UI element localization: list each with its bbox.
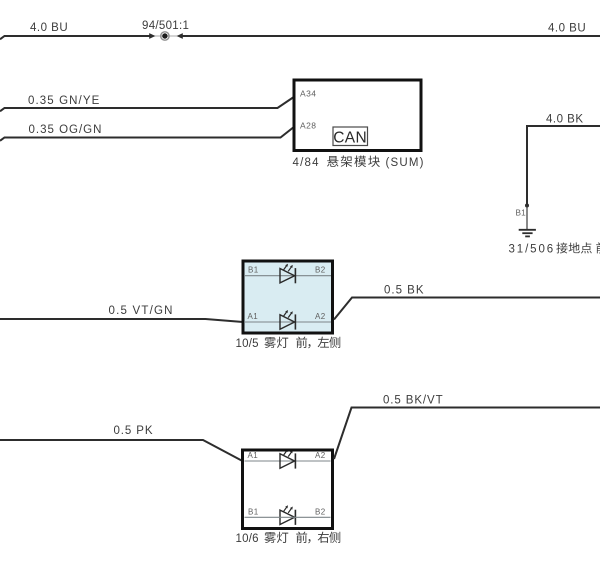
label 前 left bbox=[296, 337, 307, 348]
wire 4.0 BK bbox=[527, 126, 600, 206]
splice 94/501:1 bbox=[149, 32, 183, 40]
svg-text:(SUM): (SUM) bbox=[386, 157, 425, 169]
svg-text:94/501:1: 94/501:1 bbox=[142, 20, 189, 32]
LED fog right row A bbox=[280, 449, 295, 469]
label 前 right bbox=[296, 532, 307, 543]
row line A 10/6 bbox=[245, 460, 331, 462]
svg-text:0.5 BK: 0.5 BK bbox=[384, 285, 425, 297]
fog lamp right box 10/6 fill bbox=[241, 449, 334, 531]
fog lamp left box 10/5 fill bbox=[242, 260, 335, 335]
LED fog left row B bbox=[280, 264, 295, 284]
svg-text:0.5 PK: 0.5 PK bbox=[114, 425, 154, 437]
ground lead wire bbox=[526, 206, 528, 230]
svg-text:0.5 BK/VT: 0.5 BK/VT bbox=[383, 395, 444, 407]
svg-text:A1: A1 bbox=[248, 451, 259, 460]
svg-text:B2: B2 bbox=[315, 266, 326, 275]
wire 0.35 OG/GN bbox=[0, 127, 295, 141]
svg-text:10/6: 10/6 bbox=[236, 533, 259, 545]
svg-text:A28: A28 bbox=[300, 121, 316, 131]
svg-text:10/5: 10/5 bbox=[236, 338, 259, 350]
label 悬架模块 bbox=[327, 156, 380, 168]
label 雾灯 right bbox=[264, 532, 288, 543]
label clipped char bbox=[596, 242, 600, 253]
label comma right bbox=[308, 539, 310, 543]
fog lamp right box 10/6 border bbox=[243, 450, 333, 529]
svg-text:0.5 VT/GN: 0.5 VT/GN bbox=[109, 305, 174, 317]
svg-text:31/506: 31/506 bbox=[509, 244, 556, 256]
wire 0.5 PK bbox=[0, 440, 243, 461]
module 4/84 SUM box bbox=[294, 80, 421, 151]
svg-text:4.0 BU: 4.0 BU bbox=[548, 23, 586, 35]
label 雾灯 left bbox=[264, 337, 288, 348]
row line B 10/6 bbox=[245, 516, 331, 518]
svg-text:B1: B1 bbox=[248, 266, 259, 275]
row line A 10/5 bbox=[245, 321, 331, 323]
pin B1 dot bbox=[525, 204, 529, 208]
label 左侧 bbox=[318, 337, 341, 348]
svg-text:A2: A2 bbox=[315, 312, 326, 321]
wire 0.5 BK bbox=[334, 298, 600, 320]
svg-text:A34: A34 bbox=[300, 89, 316, 99]
label 右侧 bbox=[318, 532, 341, 543]
label comma left bbox=[308, 344, 310, 348]
svg-text:A2: A2 bbox=[315, 451, 326, 460]
LED fog left row A bbox=[280, 310, 295, 330]
wire 0.5 VT/GN bbox=[0, 319, 243, 322]
ground symbol 31/506 bbox=[519, 230, 536, 237]
svg-text:B1: B1 bbox=[516, 209, 527, 218]
svg-text:B1: B1 bbox=[248, 507, 259, 516]
CAN bus label box bbox=[333, 127, 368, 146]
wire 4.0 BU left segment bbox=[0, 36, 150, 39]
svg-text:CAN: CAN bbox=[333, 130, 367, 147]
svg-text:B2: B2 bbox=[315, 507, 326, 516]
svg-text:0.35 OG/GN: 0.35 OG/GN bbox=[29, 124, 103, 136]
svg-text:4/84: 4/84 bbox=[293, 157, 320, 169]
label 接地点 bbox=[556, 242, 591, 253]
svg-text:0.35 GN/YE: 0.35 GN/YE bbox=[28, 95, 100, 107]
fog lamp left box 10/5 border bbox=[243, 261, 333, 333]
wire 4.0 BU right segment bbox=[183, 35, 600, 37]
row line B 10/5 bbox=[245, 275, 331, 277]
svg-text:4.0 BU: 4.0 BU bbox=[30, 22, 68, 34]
wire 0.35 GN/YE bbox=[0, 97, 295, 112]
LED fog right row B bbox=[280, 505, 295, 525]
svg-text:A1: A1 bbox=[248, 312, 259, 321]
wire 0.5 BK/VT bbox=[334, 408, 600, 460]
svg-text:4.0 BK: 4.0 BK bbox=[546, 114, 584, 126]
